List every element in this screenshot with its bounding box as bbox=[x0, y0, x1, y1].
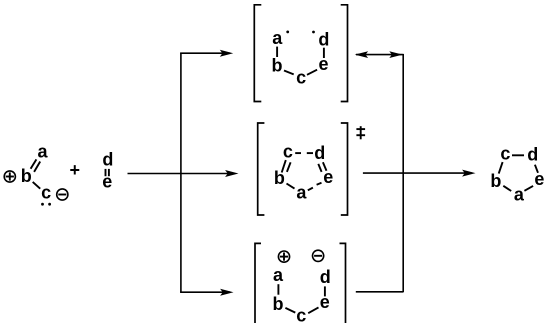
lone pair on c bbox=[41, 203, 51, 206]
svg-text:c: c bbox=[296, 68, 306, 88]
bond b-c (product) bbox=[499, 162, 503, 174]
bond c-e (zwitterion) bbox=[308, 307, 318, 313]
svg-text:a: a bbox=[514, 185, 525, 205]
bond b-c (zwitterion) bbox=[285, 308, 295, 313]
radical dot on d bbox=[312, 31, 315, 34]
double bond d=e (transition state) bbox=[318, 162, 326, 172]
svg-text:b: b bbox=[273, 294, 284, 314]
bond b-c (diradical) bbox=[284, 71, 294, 75]
svg-text:a: a bbox=[272, 28, 283, 48]
partial bond c--d dashes bbox=[295, 152, 313, 154]
charge plus on b (dipole) bbox=[4, 171, 15, 182]
svg-text:b: b bbox=[21, 166, 32, 186]
branch wire vertical bbox=[180, 53, 182, 292]
svg-text:c: c bbox=[41, 183, 51, 203]
bond a-e (product) bbox=[524, 186, 533, 191]
bottom branch arrow bbox=[180, 289, 233, 296]
charge minus (zwitterion) bbox=[313, 250, 324, 261]
svg-text:a: a bbox=[37, 142, 48, 162]
svg-text:d: d bbox=[314, 143, 325, 163]
bracket right (transition state) bbox=[341, 123, 348, 215]
partial bond a--e dashes bbox=[308, 183, 322, 191]
bond a-b (diradical) bbox=[276, 47, 278, 57]
radical dot on a bbox=[286, 31, 289, 34]
svg-text:d: d bbox=[527, 145, 538, 165]
svg-text:d: d bbox=[320, 267, 331, 287]
svg-text:b: b bbox=[274, 168, 285, 188]
svg-text:e: e bbox=[318, 54, 328, 74]
svg-text:c: c bbox=[296, 306, 306, 326]
svg-text:b: b bbox=[272, 56, 283, 76]
bond b-c bbox=[33, 182, 41, 189]
bond a-b (product) bbox=[503, 186, 511, 191]
bond d-e (zwitterion) bbox=[324, 286, 326, 296]
svg-text:e: e bbox=[320, 292, 330, 312]
bracket left (transition state) bbox=[258, 123, 265, 215]
resonance double arrow bbox=[355, 51, 403, 58]
double bond d=e bbox=[106, 169, 109, 176]
svg-text:b: b bbox=[490, 171, 501, 191]
right collector wire vertical bbox=[402, 54, 404, 292]
arrow to product bbox=[363, 170, 476, 177]
main reaction arrow bbox=[128, 170, 239, 177]
bottom right wire bbox=[356, 291, 403, 293]
svg-text:d: d bbox=[318, 30, 329, 50]
double dagger symbol bbox=[356, 126, 365, 139]
top branch arrow bbox=[180, 50, 233, 57]
svg-text:e: e bbox=[323, 167, 333, 187]
partial bond b--a dash bbox=[287, 184, 295, 189]
svg-text:a: a bbox=[296, 183, 307, 203]
svg-text:c: c bbox=[283, 141, 293, 161]
charge plus (zwitterion) bbox=[278, 251, 289, 262]
svg-text:c: c bbox=[500, 144, 510, 164]
bond d-e (product) bbox=[535, 165, 538, 173]
charge minus on c bbox=[57, 189, 68, 200]
svg-text:e: e bbox=[102, 172, 112, 192]
bond c-e (diradical) bbox=[307, 70, 317, 75]
bond a-b (zwitterion) bbox=[277, 284, 279, 295]
svg-text:d: d bbox=[102, 149, 113, 169]
svg-text:+: + bbox=[70, 160, 81, 180]
bracket left (zwitterion) bbox=[255, 243, 261, 323]
double bond b=c (transition state) bbox=[282, 160, 291, 172]
double bond b=a bbox=[31, 159, 41, 172]
bracket right (zwitterion) bbox=[340, 243, 346, 323]
svg-text:e: e bbox=[534, 169, 544, 189]
bond d-e (diradical) bbox=[323, 48, 325, 58]
svg-text:a: a bbox=[273, 265, 284, 285]
bracket right (diradical) bbox=[341, 5, 348, 102]
bracket left (diradical) bbox=[254, 5, 261, 102]
bond c-d (product) bbox=[512, 154, 524, 156]
